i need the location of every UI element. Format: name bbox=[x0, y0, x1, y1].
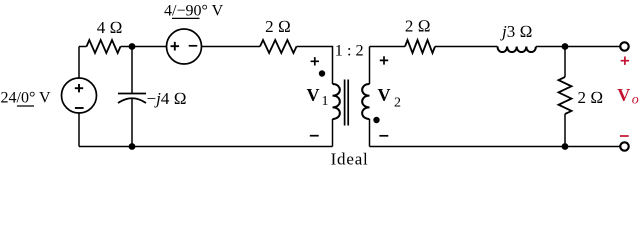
inductor j3 bbox=[498, 47, 536, 53]
svg-text:4/−90° V: 4/−90° V bbox=[164, 3, 224, 20]
primary bottom wire bbox=[332, 119, 334, 147]
secondary top rail to resistor bbox=[370, 46, 406, 48]
junction dot load bottom bbox=[562, 143, 569, 150]
wire inductor to terminal bbox=[536, 46, 620, 48]
svg-text:1 : 2: 1 : 2 bbox=[335, 42, 364, 60]
plus source1 bbox=[75, 84, 83, 92]
secondary top wire bbox=[369, 47, 371, 85]
secondary bottom wire bbox=[369, 119, 371, 147]
wire top-left from corner to resistor bbox=[79, 46, 87, 48]
plus V1 bbox=[311, 57, 319, 65]
svg-text:Vo: Vo bbox=[617, 85, 639, 108]
resistor 2ohm primary bbox=[260, 40, 297, 53]
winding dot secondary bbox=[373, 117, 379, 123]
wire to inductor bbox=[435, 46, 498, 48]
junction dot load top bbox=[562, 43, 569, 50]
transformer core lines bbox=[345, 80, 349, 126]
minus V1 bbox=[310, 135, 319, 137]
wire source2 to resistor 2ohm bbox=[202, 46, 261, 48]
red plus output bbox=[621, 57, 629, 65]
red minus output bbox=[620, 135, 629, 137]
bottom rail secondary bbox=[370, 146, 621, 148]
minus V2 bbox=[379, 135, 388, 137]
left rail bottom bbox=[78, 113, 80, 147]
primary coil bbox=[333, 84, 340, 119]
resistor 2ohm secondary bbox=[405, 40, 435, 53]
resistor R 4ohm bbox=[87, 40, 121, 53]
capacitor branch bottom wire bbox=[131, 99, 133, 147]
secondary coil bbox=[362, 84, 369, 119]
svg-text:j3 Ω: j3 Ω bbox=[500, 22, 533, 41]
svg-text:V1: V1 bbox=[307, 85, 329, 109]
capacitor branch top wire bbox=[131, 47, 133, 94]
bottom rail primary bbox=[79, 146, 333, 148]
plus source2 bbox=[171, 42, 180, 51]
junction dot capacitor bottom bbox=[129, 143, 136, 150]
capacitor top plate bbox=[118, 93, 146, 95]
minus source2 bbox=[189, 45, 198, 47]
svg-text:Ideal: Ideal bbox=[331, 150, 369, 169]
terminal bottom bbox=[620, 142, 628, 150]
terminal top bbox=[620, 42, 628, 50]
wire to primary top corner bbox=[297, 47, 333, 85]
left rail top bbox=[78, 47, 80, 79]
right resistor branch bottom bbox=[564, 114, 566, 147]
resistor 2ohm load bbox=[559, 77, 572, 114]
capacitor curved plate bbox=[118, 98, 146, 103]
svg-text:2 Ω: 2 Ω bbox=[405, 17, 431, 36]
plus V2 bbox=[380, 56, 388, 64]
svg-text:2 Ω: 2 Ω bbox=[265, 17, 291, 36]
winding dot primary bbox=[319, 70, 325, 76]
svg-text:24/0° V: 24/0° V bbox=[1, 90, 52, 107]
minus source1 bbox=[75, 107, 84, 109]
svg-text:−j4 Ω: −j4 Ω bbox=[147, 89, 187, 108]
voltage source Vs2 circle bbox=[167, 29, 202, 64]
junction dot capacitor top bbox=[129, 43, 136, 50]
svg-text:V2: V2 bbox=[378, 85, 402, 111]
right resistor branch top bbox=[564, 47, 566, 78]
svg-text:4 Ω: 4 Ω bbox=[97, 18, 123, 37]
wire resistor to source2 bbox=[121, 46, 167, 48]
svg-text:2 Ω: 2 Ω bbox=[578, 88, 604, 107]
voltage source Vs1 circle bbox=[62, 78, 97, 113]
